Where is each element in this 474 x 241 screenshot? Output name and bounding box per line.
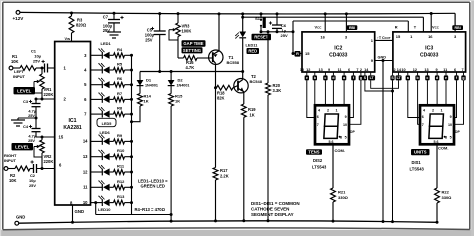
svg-text:25V: 25V — [281, 33, 288, 38]
svg-text:13: 13 — [424, 68, 428, 72]
svg-text:25V: 25V — [28, 113, 35, 118]
svg-text:GREEN LED: GREEN LED — [140, 184, 164, 189]
svg-text:1N4001: 1N4001 — [145, 84, 158, 88]
svg-text:820Ω: 820Ω — [76, 23, 87, 28]
svg-text:LED5: LED5 — [102, 122, 112, 126]
svg-text:82K: 82K — [217, 96, 225, 101]
svg-text:12: 12 — [306, 68, 310, 72]
svg-text:LTS543: LTS543 — [312, 165, 327, 170]
svg-text:LED6: LED6 — [100, 130, 111, 135]
svg-text:25V: 25V — [145, 38, 153, 43]
svg-text:D1: D1 — [146, 78, 152, 83]
svg-text:10: 10 — [300, 68, 304, 72]
svg-text:9: 9 — [345, 115, 347, 119]
svg-text:9: 9 — [436, 68, 438, 72]
svg-text:16: 16 — [320, 34, 325, 39]
svg-text:KA2281: KA2281 — [63, 125, 82, 131]
svg-text:1K: 1K — [144, 99, 149, 104]
svg-text:7: 7 — [422, 123, 424, 127]
svg-text:R17: R17 — [220, 168, 228, 173]
svg-text:CD4033: CD4033 — [420, 53, 439, 59]
svg-text:25V: 25V — [103, 28, 111, 33]
svg-text:12: 12 — [413, 68, 417, 72]
svg-text:2: 2 — [327, 109, 329, 113]
svg-text:330Ω: 330Ω — [338, 195, 349, 200]
svg-text:IC1: IC1 — [68, 118, 76, 124]
svg-text:2: 2 — [394, 68, 396, 72]
svg-text:5: 5 — [345, 135, 347, 139]
svg-text:13: 13 — [318, 68, 322, 72]
svg-text:10: 10 — [401, 68, 405, 72]
svg-text:4.7K: 4.7K — [186, 65, 195, 70]
svg-text:5,6: 5,6 — [329, 140, 334, 144]
svg-text:g: g — [462, 76, 464, 80]
svg-text:+12V: +12V — [13, 16, 25, 21]
svg-text:GND: GND — [75, 209, 85, 214]
svg-text:2.2K: 2.2K — [220, 174, 229, 179]
svg-text:LEVEL: LEVEL — [17, 88, 31, 93]
svg-text:LED11: LED11 — [246, 43, 259, 48]
svg-text:LTS543: LTS543 — [410, 166, 425, 171]
svg-text:b: b — [314, 76, 316, 80]
svg-text:6: 6 — [317, 115, 319, 119]
svg-text:DIS1: DIS1 — [412, 160, 422, 165]
svg-text:BC548: BC548 — [250, 79, 263, 84]
svg-text:10K: 10K — [11, 59, 19, 64]
svg-text:R4–R13 = 470Ω: R4–R13 = 470Ω — [135, 207, 166, 212]
svg-text:5,6: 5,6 — [434, 140, 439, 144]
svg-text:GAP TIME: GAP TIME — [183, 41, 203, 46]
svg-text:R21: R21 — [338, 190, 346, 195]
svg-text:7: 7 — [461, 68, 463, 72]
svg-text:R10: R10 — [117, 148, 125, 153]
svg-text:a: a — [343, 76, 345, 80]
svg-text:GND: GND — [378, 55, 387, 59]
svg-text:11: 11 — [443, 68, 447, 72]
svg-text:COM.: COM. — [438, 145, 448, 150]
svg-text:D2: D2 — [178, 78, 184, 83]
svg-text:g: g — [360, 76, 362, 80]
svg-text:R12: R12 — [117, 179, 125, 184]
svg-text:C4: C4 — [23, 124, 29, 129]
svg-text:INPUT: INPUT — [13, 74, 26, 79]
svg-text:DIS2: DIS2 — [313, 158, 323, 163]
svg-text:SETTING: SETTING — [183, 48, 201, 53]
svg-text:25V: 25V — [29, 183, 36, 188]
svg-text:1N4001: 1N4001 — [177, 84, 190, 88]
svg-text:6: 6 — [422, 115, 424, 119]
svg-text:6: 6 — [348, 68, 350, 72]
svg-text:25V: 25V — [33, 59, 40, 64]
svg-text:14: 14 — [83, 139, 88, 144]
svg-text:R: R — [395, 25, 398, 30]
svg-text:11: 11 — [83, 185, 88, 190]
svg-text:VCC: VCC — [432, 25, 440, 30]
svg-text:1: 1 — [440, 109, 442, 113]
svg-text:15: 15 — [396, 34, 401, 39]
svg-text:d: d — [436, 76, 438, 80]
svg-text:9: 9 — [450, 115, 452, 119]
svg-text:c: c — [324, 76, 326, 80]
svg-text:IC2: IC2 — [334, 46, 342, 52]
svg-text:e: e — [445, 76, 447, 80]
svg-text:UNITS: UNITS — [414, 150, 427, 155]
svg-text:GND: GND — [16, 215, 25, 220]
svg-text:12: 12 — [83, 169, 88, 174]
svg-text:7: 7 — [317, 123, 319, 127]
svg-text:6: 6 — [454, 68, 456, 72]
svg-text:13: 13 — [83, 154, 88, 159]
svg-text:c: c — [426, 76, 428, 80]
svg-text:R11: R11 — [117, 164, 125, 169]
svg-text:220K: 220K — [44, 92, 54, 97]
svg-text:RBI: RBI — [349, 26, 355, 30]
svg-text:1K: 1K — [250, 113, 255, 118]
svg-text:15: 15 — [305, 51, 310, 56]
svg-text:d: d — [332, 76, 334, 80]
svg-text:LEVEL: LEVEL — [15, 144, 29, 149]
svg-text:DIS1–DIS1 = COMMON: DIS1–DIS1 = COMMON — [251, 201, 300, 206]
svg-text:7: 7 — [356, 68, 358, 72]
svg-text:IC3: IC3 — [425, 46, 433, 52]
svg-text:C3: C3 — [23, 99, 29, 104]
svg-text:R13: R13 — [117, 194, 125, 199]
svg-text:e: e — [306, 76, 308, 80]
svg-text:2: 2 — [432, 109, 434, 113]
svg-text:CD4033: CD4033 — [329, 53, 348, 59]
svg-text:VIN: VIN — [64, 37, 70, 41]
svg-text:CATHODE SEVEN: CATHODE SEVEN — [251, 207, 289, 212]
svg-text:b: b — [417, 76, 419, 80]
svg-text:3.3K: 3.3K — [273, 88, 282, 93]
svg-text:TENS: TENS — [308, 150, 319, 155]
svg-text:10K: 10K — [9, 178, 17, 183]
svg-text:9: 9 — [328, 68, 330, 72]
svg-text:1K: 1K — [175, 99, 180, 104]
svg-text:LED1: LED1 — [101, 41, 112, 46]
svg-text:COM.: COM. — [335, 148, 345, 153]
svg-text:R22: R22 — [442, 190, 450, 195]
svg-text:100K: 100K — [182, 29, 192, 34]
svg-text:R7: R7 — [117, 91, 123, 96]
svg-text:S1: S1 — [255, 16, 261, 21]
svg-text:10: 10 — [448, 123, 452, 127]
svg-text:5: 5 — [450, 135, 452, 139]
svg-text:10: 10 — [83, 200, 88, 205]
svg-text:R: R — [296, 52, 299, 56]
svg-text:15: 15 — [59, 134, 64, 139]
svg-text:VCC: VCC — [315, 25, 323, 30]
svg-text:220K: 220K — [44, 159, 54, 164]
svg-text:DP: DP — [455, 130, 460, 134]
svg-text:RED: RED — [248, 48, 257, 53]
svg-text:R5: R5 — [117, 62, 123, 67]
svg-text:R9: R9 — [117, 133, 123, 138]
svg-text:INPUT: INPUT — [4, 158, 17, 163]
svg-text:RESET: RESET — [254, 35, 268, 40]
svg-text:16: 16 — [428, 34, 433, 39]
svg-text:SEGMENT DISPLAY: SEGMENT DISPLAY — [251, 212, 294, 217]
svg-text:BC558: BC558 — [227, 60, 240, 65]
svg-text:R19: R19 — [248, 107, 256, 112]
svg-text:330Ω: 330Ω — [442, 195, 453, 200]
svg-text:25V: 25V — [28, 138, 35, 143]
svg-text:RBI: RBI — [455, 26, 461, 30]
svg-text:LED1–LED10 =: LED1–LED10 = — [138, 178, 168, 183]
svg-text:C7: C7 — [103, 15, 109, 20]
svg-text:LED10: LED10 — [98, 207, 111, 212]
svg-text:COUT: COUT — [382, 36, 391, 40]
svg-text:1: 1 — [335, 109, 337, 113]
svg-text:11: 11 — [338, 68, 342, 72]
svg-text:R4: R4 — [117, 47, 123, 52]
svg-text:DP: DP — [350, 130, 355, 134]
svg-text:2: 2 — [360, 68, 362, 72]
svg-text:a: a — [407, 76, 409, 80]
svg-text:R8: R8 — [117, 106, 123, 111]
svg-text:10: 10 — [343, 123, 347, 127]
svg-text:R6: R6 — [117, 76, 123, 81]
